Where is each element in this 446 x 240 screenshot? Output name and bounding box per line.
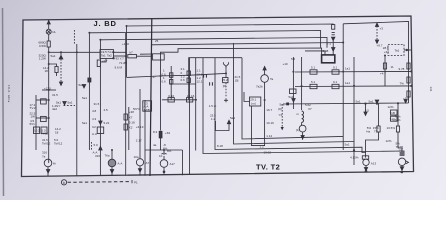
svg-text:4a: 4a xyxy=(153,143,157,147)
node dot xyxy=(112,57,114,59)
resistor R9 xyxy=(124,124,127,130)
resistor R5 xyxy=(41,127,47,134)
svg-text:4.10%: 4.10% xyxy=(350,156,359,160)
svg-text:+38: +38 xyxy=(129,110,134,114)
svg-text:+130: +130 xyxy=(122,42,129,46)
svg-text:10: 10 xyxy=(159,154,163,158)
svg-text:0.6: 0.6 xyxy=(181,78,186,82)
svg-text:[0]: [0] xyxy=(223,84,227,88)
svg-text:8%: 8% xyxy=(167,149,172,153)
diode D4 xyxy=(99,121,102,124)
svg-text:A7: A7 xyxy=(146,161,150,165)
coil L1 xyxy=(302,111,304,122)
svg-text:A.A: A.A xyxy=(118,162,123,166)
wire xyxy=(48,47,50,163)
capacitor C1 electrolytic xyxy=(159,131,162,138)
svg-text:10: 10 xyxy=(399,149,403,153)
diode D2 xyxy=(82,85,85,88)
node dot below T5 xyxy=(401,171,404,174)
arrow above T3 xyxy=(263,67,266,71)
long vertical L4 xyxy=(125,33,127,176)
vertical L5 xyxy=(139,89,141,159)
svg-text:-17: -17 xyxy=(152,75,157,79)
resistor R11 xyxy=(170,80,173,85)
vertical M4 xyxy=(292,57,294,109)
svg-text:12.1: 12.1 xyxy=(197,80,203,84)
wire lamp feed xyxy=(48,20,50,29)
svg-text:12%: 12% xyxy=(388,105,394,109)
resistor R14 xyxy=(168,98,174,102)
arrow into U2 xyxy=(332,48,335,52)
ground reference circle xyxy=(61,180,66,185)
arrow T2 emitter xyxy=(110,170,113,174)
svg-text:+3.19: +3.19 xyxy=(136,125,144,129)
wire branch resistor R2 xyxy=(49,64,57,67)
wire xyxy=(225,70,227,78)
wire to T5 xyxy=(398,132,402,156)
wire cross y90 xyxy=(42,89,56,91)
resistor R22 xyxy=(332,84,339,88)
resistor R29 xyxy=(391,110,398,115)
wire xyxy=(332,41,334,48)
svg-text:TsV12: TsV12 xyxy=(54,141,63,145)
svg-text:10.6. ábra: 10.6. ábra xyxy=(7,85,11,103)
node B4-M6 xyxy=(342,42,344,44)
resistor R6 xyxy=(97,60,100,67)
resistor R3 horizontal xyxy=(128,55,137,58)
svg-text:5.6: 5.6 xyxy=(291,57,296,61)
wire y86.5 xyxy=(295,85,412,88)
svg-text:+4.7: +4.7 xyxy=(102,59,108,63)
svg-text:9.78: 9.78 xyxy=(399,67,405,71)
svg-text:71B: 71B xyxy=(390,111,395,115)
value labels xyxy=(30,27,410,185)
svg-text:TsV12: TsV12 xyxy=(42,141,51,145)
svg-text:16.7: 16.7 xyxy=(266,108,272,112)
arrow +5 xyxy=(404,100,407,103)
antenna Y symbol xyxy=(223,62,228,70)
svg-text:25: 25 xyxy=(155,39,159,43)
svg-text:0.6: 0.6 xyxy=(162,80,167,84)
svg-text:25.2: 25.2 xyxy=(222,78,228,82)
bus line B4 xyxy=(152,43,343,45)
svg-text:Ta1: Ta1 xyxy=(101,54,106,58)
svg-text:T5: T5 xyxy=(374,129,378,133)
ring wire V4 xyxy=(234,43,355,144)
svg-text:8.18: 8.18 xyxy=(217,144,223,148)
svg-text:Ta: Ta xyxy=(270,77,274,81)
vertical R-col2 xyxy=(408,58,410,104)
page left edge xyxy=(3,8,4,196)
main vertical divider wire xyxy=(150,18,152,176)
resistor R16 xyxy=(223,78,228,83)
svg-text:A17: A17 xyxy=(170,162,176,166)
inner box top right xyxy=(343,22,408,58)
resistor R10 xyxy=(170,73,173,78)
resistor R12 xyxy=(187,71,190,76)
transistor T5 xyxy=(398,158,405,165)
transistor T3 xyxy=(261,75,269,83)
vertical +130 xyxy=(126,26,128,77)
svg-text:10.2: 10.2 xyxy=(34,128,40,132)
arrow T8 emitter xyxy=(138,169,141,172)
wire y72 xyxy=(295,70,412,73)
svg-text:2.17: 2.17 xyxy=(136,139,142,143)
svg-text:+4.7: +4.7 xyxy=(380,72,386,76)
arrow T1 emitter xyxy=(46,170,49,174)
svg-text:8.3: 8.3 xyxy=(153,130,158,134)
inner ring top T1 xyxy=(161,48,322,62)
vertical L4b xyxy=(128,107,130,150)
wire stub across divider xyxy=(140,53,153,55)
bus line B3 xyxy=(100,38,327,48)
svg-text:K2: K2 xyxy=(129,126,133,130)
svg-text:Hi: Hi xyxy=(53,162,56,166)
svg-text:31.5: 31.5 xyxy=(52,93,58,97)
svg-text:+5%: +5% xyxy=(403,97,409,101)
tick label PL xyxy=(131,180,133,183)
bus line B1 xyxy=(127,24,334,26)
svg-text:5a1: 5a1 xyxy=(82,96,87,100)
capacitor marks xyxy=(332,33,335,35)
resistor R23 xyxy=(383,63,386,69)
box top xyxy=(145,149,183,151)
wire y52 to module xyxy=(61,51,100,53)
svg-text:J. BD: J. BD xyxy=(94,19,117,28)
box right edge xyxy=(182,150,184,175)
diode D6 xyxy=(375,100,378,103)
wire y103.5 xyxy=(283,103,409,104)
dashed wire xyxy=(225,83,227,98)
svg-text:2.98: 2.98 xyxy=(323,49,329,53)
svg-text:7a: 7a xyxy=(42,155,46,159)
wire y118 xyxy=(36,117,49,119)
relay box K1 xyxy=(153,54,165,60)
vertical bias wire xyxy=(365,104,367,112)
svg-text:7a2b: 7a2b xyxy=(256,85,263,89)
node dot xyxy=(406,49,408,51)
svg-text:18: 18 xyxy=(55,130,59,134)
svg-text:5a1: 5a1 xyxy=(79,83,84,87)
diode D5 xyxy=(292,99,295,102)
wire module right xyxy=(114,51,127,53)
wire branch to D1 xyxy=(49,51,61,53)
long vertical L2 xyxy=(88,33,90,150)
dashed supply stub xyxy=(376,26,378,40)
transistor T7 xyxy=(299,125,306,132)
svg-text:+63: +63 xyxy=(165,131,170,135)
bus line B2 xyxy=(89,31,320,48)
svg-text:11: 11 xyxy=(391,65,394,69)
svg-text:5.1: 5.1 xyxy=(311,80,316,84)
svg-text:13.5%: 13.5% xyxy=(387,126,396,130)
svg-text:+10: +10 xyxy=(283,62,288,66)
wire module down xyxy=(101,59,106,63)
svg-text:31.5: 31.5 xyxy=(94,102,100,106)
arrow up L3 xyxy=(99,146,102,150)
node dot xyxy=(376,103,378,105)
wire y76 xyxy=(127,73,227,77)
module box Ta1 dashed xyxy=(388,45,404,56)
arrow up hook xyxy=(227,120,230,123)
svg-text:[1]: [1] xyxy=(296,128,300,132)
svg-text:7a%: 7a% xyxy=(395,118,401,122)
svg-text:1WB: 1WB xyxy=(143,108,150,112)
wire to T4 xyxy=(366,132,379,158)
hook wire with arrow xyxy=(216,121,230,131)
svg-text:4.5: 4.5 xyxy=(104,108,109,112)
svg-text:9.18: 9.18 xyxy=(129,121,135,125)
svg-text:1.2NY: 1.2NY xyxy=(52,104,60,108)
resistor R21 xyxy=(310,84,317,88)
node dot below T4 xyxy=(365,170,368,173)
resistor R1 680ohm xyxy=(47,41,50,47)
arrow T4 emitter xyxy=(364,168,367,171)
svg-text:1W: 1W xyxy=(31,115,36,119)
svg-text:5a1: 5a1 xyxy=(82,121,87,125)
svg-text:T4B: T4B xyxy=(390,117,396,121)
svg-text:A13: A13 xyxy=(371,161,377,165)
svg-text:5a1: 5a1 xyxy=(230,116,235,120)
svg-text:1.5 m: 1.5 m xyxy=(209,104,217,108)
svg-text:5a1: 5a1 xyxy=(51,54,56,58)
svg-text:TV12: TV12 xyxy=(41,132,49,136)
wire T3 down xyxy=(264,82,266,146)
svg-text:0.16: 0.16 xyxy=(168,94,174,98)
svg-text:1.2W: 1.2W xyxy=(39,57,46,61)
node dot xyxy=(397,102,399,104)
svg-text:5N°C: 5N°C xyxy=(133,107,141,111)
svg-text:1.2: 1.2 xyxy=(260,145,265,149)
transistor T1 xyxy=(44,159,52,167)
arrow T5 emitter xyxy=(400,167,403,171)
svg-text:131: 131 xyxy=(429,87,433,92)
transistor T4 xyxy=(363,159,369,165)
svg-text:316: 316 xyxy=(95,154,100,158)
resistor R19 xyxy=(310,70,317,74)
arrow down +9.7 xyxy=(375,40,378,43)
ring wire V5 xyxy=(242,58,343,139)
svg-text:TV. T2: TV. T2 xyxy=(256,163,280,172)
svg-text:12.16: 12.16 xyxy=(187,94,195,98)
left column wire xyxy=(35,95,37,150)
svg-text:10a: 10a xyxy=(134,155,139,159)
diode D3 xyxy=(63,102,66,105)
wire U1 bottom xyxy=(252,106,265,146)
svg-text:+3: +3 xyxy=(380,27,384,31)
svg-text:9.1: 9.1 xyxy=(333,80,338,84)
svg-text:Y2: Y2 xyxy=(279,113,283,117)
svg-text:[0]: [0] xyxy=(235,79,239,83)
long vertical M6 xyxy=(342,24,344,150)
wire U2 left xyxy=(305,50,325,52)
svg-text:A.A: A.A xyxy=(92,132,97,136)
svg-text:C2: C2 xyxy=(92,125,96,129)
svg-text:k7: k7 xyxy=(130,51,134,55)
transistor T8 xyxy=(136,159,143,166)
resistor R18 xyxy=(332,25,335,30)
wire to frame xyxy=(404,49,411,51)
node dot below T6 xyxy=(163,171,166,174)
arrow T7 emitter xyxy=(301,136,304,139)
vertical R-col1 xyxy=(384,56,386,87)
svg-text:316: 316 xyxy=(42,151,47,155)
resistor R26 xyxy=(407,91,410,97)
svg-text:18: 18 xyxy=(45,69,49,73)
node dot ring xyxy=(353,149,355,151)
wire y99.5 xyxy=(162,99,197,101)
long vertical L3 xyxy=(99,40,101,176)
svg-text:9.6: 9.6 xyxy=(115,65,120,69)
wire y100 xyxy=(36,99,49,101)
resistor R4a xyxy=(41,99,47,104)
cross node xyxy=(224,98,228,102)
resistor R8 xyxy=(124,114,127,120)
svg-text:5.0: 5.0 xyxy=(94,143,99,147)
svg-text:(9): (9) xyxy=(278,107,282,111)
coil above T6 xyxy=(162,150,167,154)
svg-text:b: b xyxy=(63,181,65,185)
svg-text:1a1: 1a1 xyxy=(345,81,350,85)
vertical R-col3 xyxy=(378,104,380,126)
svg-text:5a1: 5a1 xyxy=(289,95,294,99)
IC box U1 xyxy=(250,97,261,106)
svg-text:5.1: 5.1 xyxy=(311,66,316,70)
middle box top wire xyxy=(189,58,242,100)
svg-text:4.8: 4.8 xyxy=(92,109,97,113)
svg-text:Ha: Ha xyxy=(366,129,370,133)
arrow up +3 xyxy=(375,23,378,26)
svg-text:X7: X7 xyxy=(308,107,312,111)
wire dashed to ground xyxy=(60,59,62,82)
vertical R-col4 xyxy=(397,103,399,126)
svg-text:7%: 7% xyxy=(400,82,405,86)
resistor R20 xyxy=(332,70,339,74)
vertical M5 xyxy=(301,57,303,110)
resistor R15 xyxy=(187,98,193,102)
svg-text:1.12: 1.12 xyxy=(266,134,272,138)
capacitor C4 marks xyxy=(210,82,213,85)
module box Ta1/Ta2 xyxy=(100,50,114,59)
svg-text:19.02: 19.02 xyxy=(264,151,272,155)
svg-text:5a1: 5a1 xyxy=(356,100,361,104)
svg-text:Ta1: Ta1 xyxy=(395,49,400,53)
middle vertical M1 xyxy=(160,62,162,131)
ring wire V1 xyxy=(189,58,191,175)
wire y84 xyxy=(171,83,196,85)
box around T6 xyxy=(144,100,146,176)
resistor R7 xyxy=(97,127,104,134)
wire U1 left xyxy=(244,92,250,102)
diode D7 xyxy=(332,37,335,40)
resistor R4b xyxy=(41,116,47,121)
svg-text:5a1: 5a1 xyxy=(68,101,73,105)
wire xyxy=(48,34,50,41)
svg-text:7.5: 7.5 xyxy=(327,42,332,46)
top arrow feed xyxy=(47,21,50,24)
svg-text:[m]: [m] xyxy=(251,102,255,106)
svg-text:8.5: 8.5 xyxy=(365,109,370,113)
arrow down 8.5 xyxy=(364,112,367,115)
T5 gate tail xyxy=(406,161,409,164)
capacitor C3 marks xyxy=(204,74,207,77)
svg-text:+31: +31 xyxy=(384,50,389,54)
cap above T4 xyxy=(362,156,368,159)
resistor R30 xyxy=(391,116,398,121)
svg-text:5.21: 5.21 xyxy=(104,121,110,125)
transistor T6 xyxy=(160,160,168,168)
svg-text:Ta2: Ta2 xyxy=(107,54,112,58)
long vertical L1 xyxy=(76,44,78,176)
cap above T5 xyxy=(400,152,405,156)
svg-text:P1: P1 xyxy=(134,181,138,185)
svg-text:76a: 76a xyxy=(105,154,110,158)
middle vertical M2 xyxy=(170,66,172,100)
terminal box TB1 xyxy=(143,101,152,111)
schematic frame xyxy=(22,16,414,177)
svg-text:5a1: 5a1 xyxy=(345,142,350,146)
svg-text:0.5W: 0.5W xyxy=(39,44,46,48)
svg-text:5a1: 5a1 xyxy=(280,103,285,107)
svg-text:5V1: 5V1 xyxy=(30,122,36,126)
resistor R13 xyxy=(187,78,190,83)
ring wire V3 xyxy=(215,58,366,153)
svg-text:9.1: 9.1 xyxy=(333,66,338,70)
arrow down xyxy=(59,82,62,85)
lamp UL xyxy=(46,29,51,34)
svg-text:5a1: 5a1 xyxy=(369,100,374,104)
svg-text:4.3: 4.3 xyxy=(92,117,97,121)
svg-text:UL: UL xyxy=(52,30,56,34)
long vertical M7 xyxy=(353,57,355,165)
svg-text:12%: 12% xyxy=(386,139,392,143)
dashed equipotential line xyxy=(68,181,132,184)
resistor R24 xyxy=(407,63,410,69)
svg-text:TV.2: TV.2 xyxy=(30,106,36,110)
middle vertical M3 xyxy=(195,58,197,151)
thick IC box U2 xyxy=(322,55,335,63)
svg-text:10.16: 10.16 xyxy=(266,121,274,125)
resistor R27 xyxy=(377,126,380,132)
resistor R28 xyxy=(396,126,399,132)
resistor R17 xyxy=(290,89,297,94)
ring wire V2 xyxy=(203,58,404,156)
transistor T2 shaded xyxy=(108,159,116,167)
dashed stub T2col xyxy=(91,142,93,150)
diode D1 xyxy=(59,55,63,59)
wire y56 xyxy=(114,55,127,57)
svg-text:1a1: 1a1 xyxy=(345,67,350,71)
svg-text:1.2: 1.2 xyxy=(211,117,216,121)
polarized cap C2 xyxy=(88,78,91,82)
svg-text:K7: K7 xyxy=(129,116,133,120)
resistor R2 xyxy=(55,67,58,73)
resistor R4 xyxy=(34,127,40,134)
dashed stub NY xyxy=(64,105,76,107)
svg-text:+120: +120 xyxy=(44,86,51,90)
dashed top of L1 xyxy=(73,30,75,44)
resistor R25 xyxy=(407,77,410,83)
